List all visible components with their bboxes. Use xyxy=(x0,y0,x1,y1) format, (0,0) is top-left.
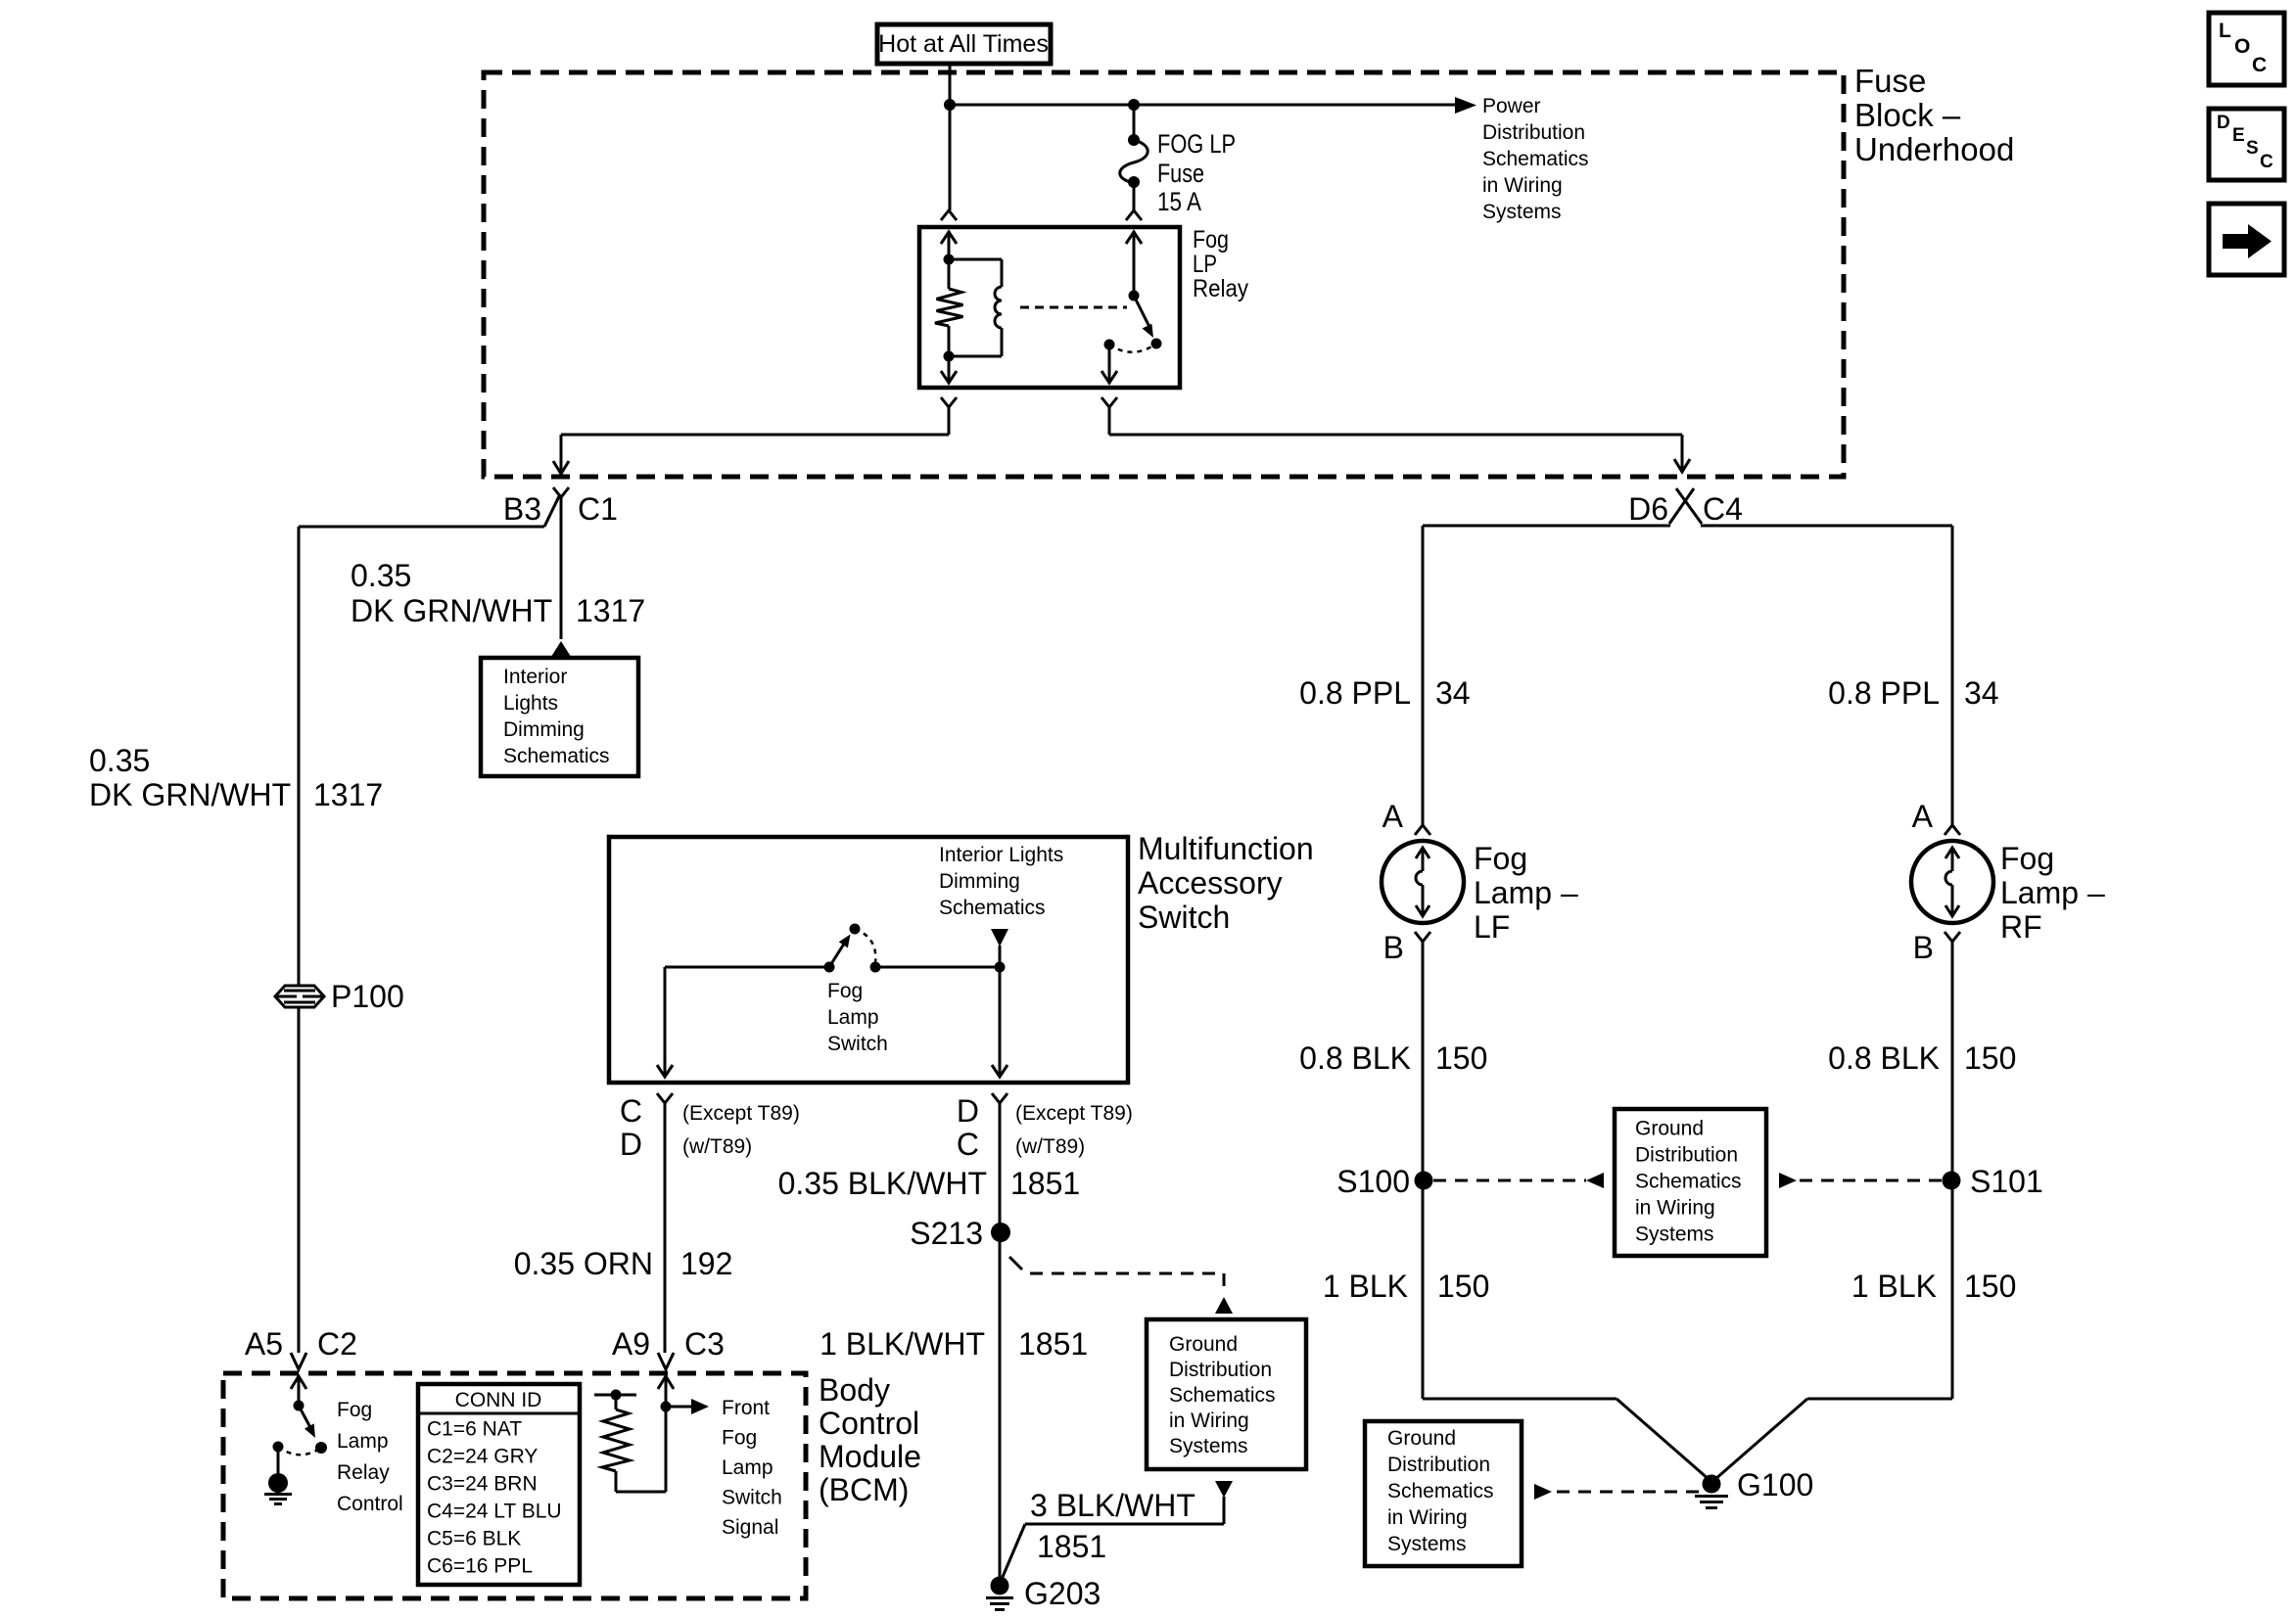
svg-text:Control: Control xyxy=(819,1406,919,1441)
svg-text:Schematics: Schematics xyxy=(1169,1384,1276,1407)
svg-text:Systems: Systems xyxy=(1169,1435,1248,1457)
svg-text:C5=6 BLK: C5=6 BLK xyxy=(427,1528,521,1550)
svg-text:Fog: Fog xyxy=(827,980,863,1002)
svg-text:LF: LF xyxy=(1474,909,1510,945)
svg-text:Dimming: Dimming xyxy=(939,870,1020,893)
svg-text:Module: Module xyxy=(819,1439,921,1474)
svg-text:1 BLK/WHT: 1 BLK/WHT xyxy=(820,1326,985,1362)
svg-text:C: C xyxy=(2260,152,2273,172)
svg-text:S: S xyxy=(2246,138,2259,159)
svg-text:in Wiring: in Wiring xyxy=(1387,1506,1468,1529)
svg-text:DK GRN/WHT: DK GRN/WHT xyxy=(89,777,291,812)
svg-text:L: L xyxy=(2219,20,2231,42)
svg-text:Lights: Lights xyxy=(503,692,558,715)
svg-text:E: E xyxy=(2232,125,2245,146)
svg-text:Accessory: Accessory xyxy=(1138,865,1283,901)
svg-text:G203: G203 xyxy=(1024,1576,1101,1611)
svg-text:Lamp: Lamp xyxy=(722,1456,773,1479)
svg-text:34: 34 xyxy=(1435,675,1471,711)
svg-text:Distribution: Distribution xyxy=(1482,121,1585,144)
svg-text:192: 192 xyxy=(680,1246,732,1281)
svg-text:D6: D6 xyxy=(1628,491,1668,527)
svg-text:Block –: Block – xyxy=(1854,97,1961,133)
svg-text:Ground: Ground xyxy=(1635,1118,1704,1140)
svg-text:3 BLK/WHT: 3 BLK/WHT xyxy=(1030,1488,1195,1523)
svg-text:in Wiring: in Wiring xyxy=(1169,1409,1249,1432)
svg-text:Systems: Systems xyxy=(1482,201,1562,223)
svg-text:S213: S213 xyxy=(910,1216,983,1251)
svg-text:0.35: 0.35 xyxy=(89,743,150,778)
svg-text:in Wiring: in Wiring xyxy=(1482,174,1563,197)
svg-text:Distribution: Distribution xyxy=(1635,1144,1738,1167)
svg-text:A: A xyxy=(1912,799,1934,834)
svg-text:CONN ID: CONN ID xyxy=(455,1389,542,1411)
svg-text:Ground: Ground xyxy=(1169,1333,1238,1356)
svg-text:Switch: Switch xyxy=(722,1487,782,1509)
svg-text:C6=16 PPL: C6=16 PPL xyxy=(427,1555,533,1578)
svg-text:A: A xyxy=(1382,799,1404,834)
svg-text:Hot at All Times: Hot at All Times xyxy=(878,30,1049,58)
svg-text:Schematics: Schematics xyxy=(1482,148,1589,170)
svg-text:0.8 PPL: 0.8 PPL xyxy=(1299,675,1411,711)
svg-text:Fog: Fog xyxy=(1193,226,1229,254)
svg-text:C1=6 NAT: C1=6 NAT xyxy=(427,1418,522,1441)
svg-text:A5: A5 xyxy=(245,1326,283,1362)
svg-text:1 BLK: 1 BLK xyxy=(1323,1269,1408,1304)
svg-text:Fog: Fog xyxy=(337,1399,372,1421)
svg-text:Schematics: Schematics xyxy=(503,745,610,767)
svg-text:1317: 1317 xyxy=(576,593,645,628)
svg-text:DK GRN/WHT: DK GRN/WHT xyxy=(351,593,552,628)
svg-text:Distribution: Distribution xyxy=(1169,1359,1272,1381)
svg-text:Front: Front xyxy=(722,1397,770,1419)
svg-text:D: D xyxy=(2217,113,2230,133)
svg-text:1851: 1851 xyxy=(1018,1326,1088,1362)
svg-text:0.8 BLK: 0.8 BLK xyxy=(1299,1040,1411,1076)
svg-text:B: B xyxy=(1383,930,1404,965)
svg-text:C3: C3 xyxy=(684,1326,725,1362)
svg-text:RF: RF xyxy=(2000,909,2042,945)
svg-text:Relay: Relay xyxy=(1193,275,1248,302)
svg-text:Ground: Ground xyxy=(1387,1427,1456,1450)
svg-text:B3: B3 xyxy=(503,491,541,527)
svg-text:150: 150 xyxy=(1437,1269,1489,1304)
svg-text:Systems: Systems xyxy=(1635,1224,1714,1246)
svg-text:Dimming: Dimming xyxy=(503,718,585,741)
svg-text:LP: LP xyxy=(1193,251,1217,278)
svg-text:Multifunction: Multifunction xyxy=(1138,831,1314,866)
svg-text:15 A: 15 A xyxy=(1157,187,1201,216)
svg-text:Lamp –: Lamp – xyxy=(1474,875,1578,910)
svg-text:1 BLK: 1 BLK xyxy=(1851,1269,1937,1304)
svg-text:0.8 BLK: 0.8 BLK xyxy=(1828,1040,1940,1076)
svg-text:O: O xyxy=(2234,35,2250,58)
svg-text:Systems: Systems xyxy=(1387,1533,1467,1555)
svg-text:Fuse: Fuse xyxy=(1854,63,1926,99)
svg-text:Switch: Switch xyxy=(827,1033,888,1055)
svg-text:150: 150 xyxy=(1964,1269,2016,1304)
svg-text:34: 34 xyxy=(1964,675,1999,711)
svg-text:C4: C4 xyxy=(1703,491,1743,527)
svg-text:(Except T89): (Except T89) xyxy=(1015,1102,1133,1125)
svg-text:Body: Body xyxy=(819,1372,890,1408)
svg-text:(Except T89): (Except T89) xyxy=(682,1102,800,1125)
svg-text:(w/T89): (w/T89) xyxy=(682,1135,752,1158)
svg-text:(w/T89): (w/T89) xyxy=(1015,1135,1085,1158)
svg-text:0.35 BLK/WHT: 0.35 BLK/WHT xyxy=(778,1166,987,1201)
svg-text:S100: S100 xyxy=(1336,1164,1410,1199)
svg-text:Signal: Signal xyxy=(722,1516,778,1539)
svg-text:C1: C1 xyxy=(578,491,618,527)
svg-text:Fog: Fog xyxy=(722,1427,757,1450)
svg-text:P100: P100 xyxy=(331,979,404,1014)
svg-text:Schematics: Schematics xyxy=(1635,1171,1742,1193)
svg-text:D: D xyxy=(957,1093,979,1129)
svg-text:Switch: Switch xyxy=(1138,900,1230,935)
svg-text:D: D xyxy=(620,1127,642,1162)
svg-text:Fuse: Fuse xyxy=(1157,159,1204,188)
svg-text:1851: 1851 xyxy=(1037,1529,1106,1564)
svg-text:B: B xyxy=(1913,930,1934,965)
svg-text:Interior: Interior xyxy=(503,666,567,688)
svg-text:Underhood: Underhood xyxy=(1854,131,2014,167)
svg-text:0.35: 0.35 xyxy=(351,558,411,593)
svg-text:(BCM): (BCM) xyxy=(819,1472,909,1507)
svg-text:Lamp –: Lamp – xyxy=(2000,875,2105,910)
svg-text:Relay: Relay xyxy=(337,1461,390,1484)
svg-text:Fog: Fog xyxy=(2000,841,2054,876)
svg-text:Interior Lights: Interior Lights xyxy=(939,844,1063,866)
svg-text:Lamp: Lamp xyxy=(337,1430,389,1453)
svg-text:C: C xyxy=(620,1093,642,1129)
svg-text:150: 150 xyxy=(1964,1040,2016,1076)
svg-text:1317: 1317 xyxy=(313,777,383,812)
svg-text:C2: C2 xyxy=(317,1326,357,1362)
svg-text:C: C xyxy=(957,1127,979,1162)
svg-text:Schematics: Schematics xyxy=(939,897,1046,919)
svg-text:Fog: Fog xyxy=(1474,841,1527,876)
svg-text:Lamp: Lamp xyxy=(827,1006,879,1029)
svg-text:Power: Power xyxy=(1482,95,1541,117)
svg-text:Distribution: Distribution xyxy=(1387,1454,1490,1476)
svg-text:150: 150 xyxy=(1435,1040,1487,1076)
svg-text:A9: A9 xyxy=(612,1326,650,1362)
svg-text:Control: Control xyxy=(337,1493,403,1515)
svg-text:0.35 ORN: 0.35 ORN xyxy=(514,1246,653,1281)
svg-text:1851: 1851 xyxy=(1010,1166,1080,1201)
svg-text:C2=24 GRY: C2=24 GRY xyxy=(427,1446,538,1468)
svg-text:C: C xyxy=(2252,54,2267,76)
svg-text:0.8 PPL: 0.8 PPL xyxy=(1828,675,1940,711)
svg-text:in Wiring: in Wiring xyxy=(1635,1197,1715,1220)
svg-text:FOG LP: FOG LP xyxy=(1157,129,1236,159)
svg-text:C3=24 BRN: C3=24 BRN xyxy=(427,1473,538,1496)
svg-text:C4=24 LT BLU: C4=24 LT BLU xyxy=(427,1501,562,1523)
svg-text:G100: G100 xyxy=(1737,1467,1813,1502)
svg-text:S101: S101 xyxy=(1970,1164,2043,1199)
svg-text:Schematics: Schematics xyxy=(1387,1480,1494,1502)
